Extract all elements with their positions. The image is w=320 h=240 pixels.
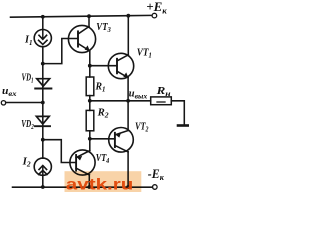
diode VD2 [35, 103, 50, 140]
label +Ek [146, 0, 167, 15]
svg-text:VT4: VT4 [96, 153, 110, 165]
svg-text:I2: I2 [22, 156, 31, 169]
label u_vx [2, 86, 17, 98]
svg-text:VT1: VT1 [137, 47, 152, 59]
label u_vyh [129, 88, 148, 100]
label VT4 [96, 153, 110, 165]
diode VD1 [35, 64, 51, 103]
transistor VT3 [68, 16, 95, 52]
label VT2 [135, 121, 149, 133]
svg-text:avtk.ru: avtk.ru [66, 175, 134, 192]
svg-text:VD1: VD1 [22, 73, 34, 85]
transistor VT4 [70, 150, 95, 187]
node C junction [88, 64, 92, 68]
node input junction [41, 101, 45, 105]
current source I1 [34, 29, 51, 46]
wire node C to VT1 base [90, 65, 117, 67]
node E junction [88, 137, 92, 141]
svg-text:VT3: VT3 [96, 22, 111, 34]
wire rail to I1 [42, 17, 44, 30]
current source I2 [34, 140, 51, 187]
wire VT2 emitter to output node [127, 101, 129, 131]
svg-text:VT2: VT2 [135, 121, 149, 133]
svg-text:+Eк: +Eк [146, 0, 167, 15]
wire Rn to ground [171, 101, 184, 124]
label Rn [155, 86, 171, 98]
svg-text:I1: I1 [24, 34, 32, 47]
svg-text:VD2: VD2 [21, 119, 34, 131]
svg-text:uвх: uвх [2, 86, 17, 98]
label I1 [24, 34, 32, 47]
wire VT1 emitter to output node [127, 78, 129, 101]
wire node E to VT4 emitter [89, 139, 91, 151]
label R2 [97, 107, 109, 119]
label I2 [22, 156, 31, 169]
label VD1 [22, 73, 34, 85]
node B junction [41, 138, 45, 142]
transistor VT1 [108, 16, 133, 79]
node VT2-rail [126, 185, 130, 189]
watermark avtk.ru [65, 171, 142, 192]
wire bottom supply rail [13, 186, 153, 188]
wire I1 to node A [42, 47, 44, 64]
wire output line [90, 100, 151, 102]
svg-text:R2: R2 [97, 107, 109, 119]
label R1 [95, 81, 106, 93]
wire node A to VT3 base [43, 39, 78, 64]
wire node B to VT4 base [43, 140, 76, 163]
svg-text:R1: R1 [95, 81, 106, 93]
svg-text:uвых: uвых [129, 88, 148, 100]
node D junction [88, 99, 92, 103]
label -Ek [148, 166, 164, 182]
transistor VT2 [109, 128, 134, 188]
label VT1 [137, 47, 152, 59]
node VT4-rail [87, 185, 91, 189]
label VD2 [21, 119, 34, 131]
node: rail to I1 junction [41, 15, 45, 19]
node rail-VT3 collector [87, 14, 91, 18]
node I2-rail [41, 185, 45, 189]
terminal +Ek [152, 13, 157, 18]
label VT3 [96, 22, 111, 34]
ground [178, 124, 191, 127]
node A junction [41, 62, 45, 66]
wire VT3 emitter down [89, 51, 91, 66]
wire node E to VT2 base [90, 138, 115, 140]
wire top supply rail [11, 15, 152, 17]
node rail-VT1 collector [126, 14, 130, 18]
resistor Rn [151, 97, 172, 105]
terminal input u_vx [1, 101, 5, 105]
terminal -Ek [153, 185, 158, 190]
node F output junction [126, 99, 130, 103]
resistor R2 [86, 101, 94, 139]
wire input to node [6, 102, 43, 104]
resistor R1 [86, 66, 94, 101]
svg-text:-Eк: -Eк [148, 166, 164, 182]
